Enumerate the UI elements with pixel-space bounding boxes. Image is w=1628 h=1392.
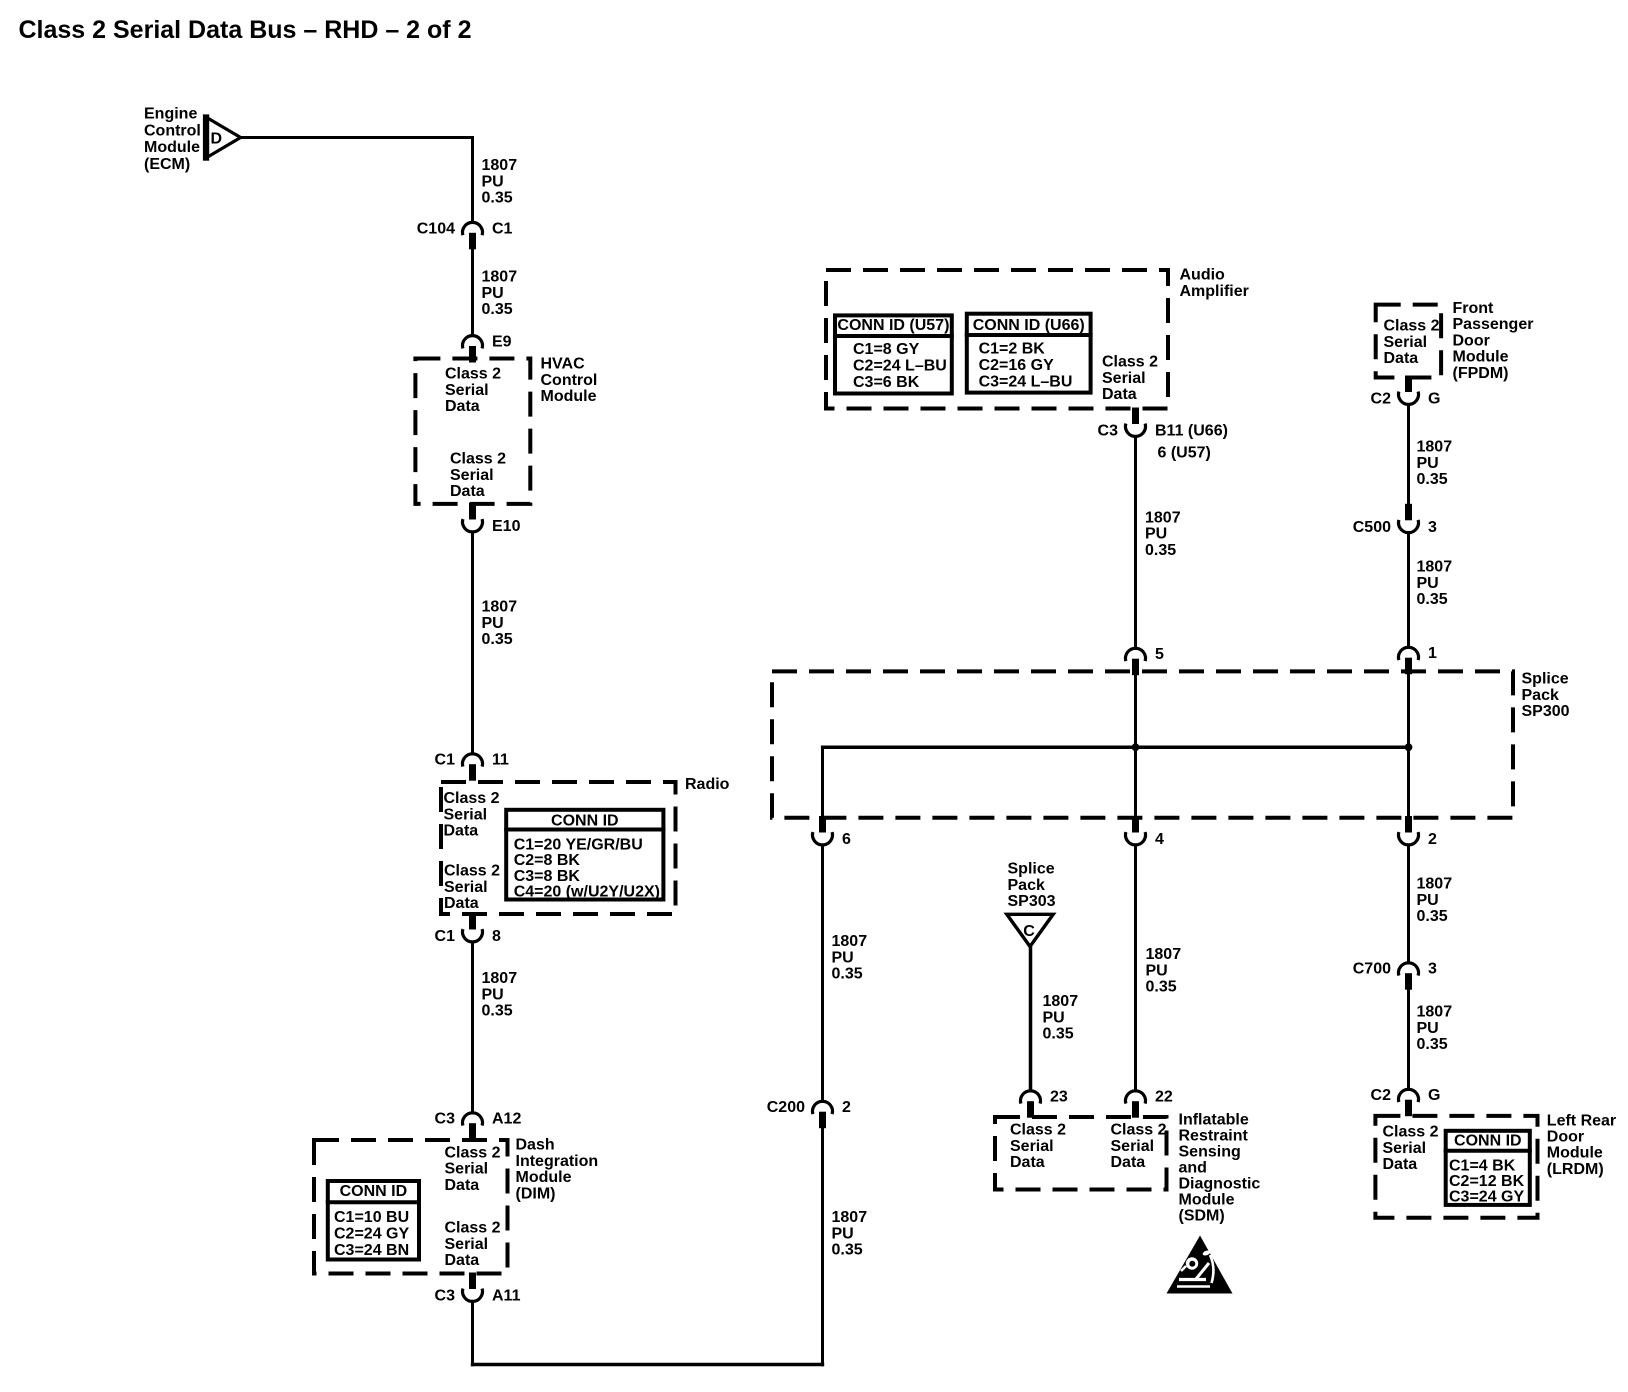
svg-text:PU: PU [1417,455,1439,472]
table CONN ID (U57) [833,315,954,393]
connector C1 pin 11 (Radio) [435,752,509,781]
svg-text:PU: PU [482,285,504,302]
svg-text:E10: E10 [492,518,521,535]
svg-text:Data: Data [1010,1154,1045,1171]
airbag caution symbol [1167,1236,1233,1294]
svg-text:0.35: 0.35 [1417,471,1448,488]
svg-text:PU: PU [1417,892,1439,909]
svg-text:11: 11 [492,752,509,769]
wire SP303 to SDM 23 (1807 PU) [1029,945,1033,1093]
svg-text:C2=24 GY: C2=24 GY [334,1226,409,1243]
svg-text:3: 3 [1428,961,1437,978]
svg-text:Class 2: Class 2 [1010,1122,1066,1139]
svg-text:Data: Data [450,483,485,500]
svg-text:0.35: 0.35 [482,1003,513,1020]
svg-text:Left Rear: Left Rear [1547,1113,1616,1130]
svg-text:G: G [1428,391,1440,408]
svg-text:Pack: Pack [1522,687,1559,704]
connector C3 pin B11 (U66) / 6 (U57) [1098,408,1228,462]
svg-text:Class 2: Class 2 [1383,1124,1439,1141]
connector C200 pin 2 [767,1099,851,1128]
svg-text:(SDM): (SDM) [1179,1208,1225,1225]
svg-text:Module: Module [1547,1145,1603,1162]
wire Radio 8 to DIM A12 (1807 PU) [471,942,474,1115]
svg-text:0.35: 0.35 [482,190,513,207]
svg-text:HVAC: HVAC [541,356,586,373]
wire Audio Amp to SP300 5 (1807 PU) [1134,436,1137,651]
svg-text:Module: Module [144,139,200,156]
svg-text:Class 2 Serial Data Bus – RHD: Class 2 Serial Data Bus – RHD – 2 of 2 [19,16,472,44]
svg-text:(DIM): (DIM) [516,1185,556,1202]
svg-text:1807: 1807 [482,269,518,286]
svg-text:C1: C1 [435,752,456,769]
svg-text:C1: C1 [435,928,456,945]
connector SP300 pin 2 [1399,816,1437,848]
svg-text:PU: PU [1043,1009,1065,1026]
svg-text:1807: 1807 [1417,876,1453,893]
svg-text:G: G [1428,1087,1440,1104]
svg-text:PU: PU [1417,1020,1439,1037]
svg-text:Serial: Serial [1384,334,1428,351]
svg-text:Data: Data [1384,350,1419,367]
svg-text:Passenger: Passenger [1453,316,1534,333]
svg-text:0.35: 0.35 [832,966,863,983]
svg-text:C1=8 GY: C1=8 GY [853,341,920,358]
svg-text:(LRDM): (LRDM) [1547,1161,1604,1178]
svg-text:1807: 1807 [1417,439,1453,456]
svg-text:C4=20 (w/U2Y/U2X): C4=20 (w/U2Y/U2X) [514,884,660,901]
svg-text:(ECM): (ECM) [144,156,190,173]
svg-text:Radio: Radio [685,776,730,793]
svg-text:(FPDM): (FPDM) [1453,365,1509,382]
module Audio Amplifier box [826,270,1168,409]
wire C700 to LRDM G (1807 PU) [1407,989,1410,1092]
svg-text:D: D [211,131,223,148]
svg-text:C3=24 BN: C3=24 BN [334,1242,409,1259]
table CONN ID (Radio) [504,810,665,901]
svg-text:C3=24 GY: C3=24 GY [1449,1189,1524,1206]
module HVAC Control Module box [415,359,530,504]
table CONN ID (LRDM) [1444,1131,1532,1206]
svg-text:Control: Control [144,122,201,139]
svg-text:4: 4 [1155,831,1164,848]
splice pack SP300 box [772,671,1513,817]
svg-text:C2: C2 [1371,1087,1392,1104]
svg-text:Serial: Serial [450,467,494,484]
svg-text:C3: C3 [435,1288,456,1305]
wire C500 to SP300 1 (1807 PU) [1407,531,1410,649]
svg-text:C1=10 BU: C1=10 BU [334,1209,409,1226]
svg-text:C1=20 YE/GR/BU: C1=20 YE/GR/BU [514,837,643,854]
svg-text:Integration: Integration [516,1153,599,1170]
connector C1 pin 8 (Radio) [435,913,501,945]
svg-text:Serial: Serial [1111,1138,1155,1155]
junction dot (bus / pin 4 leg) [1132,743,1140,751]
svg-text:C3=6 BK: C3=6 BK [853,374,920,391]
svg-text:PU: PU [482,986,504,1003]
svg-text:E9: E9 [492,334,512,351]
svg-text:1807: 1807 [1146,946,1182,963]
svg-text:B11 (U66): B11 (U66) [1155,423,1228,440]
svg-text:CONN ID: CONN ID [1454,1133,1522,1150]
connector pin E9 (HVAC) [463,334,512,363]
svg-text:Data: Data [1383,1156,1418,1173]
svg-text:C1=2 BK: C1=2 BK [979,341,1046,358]
svg-text:C3: C3 [1098,423,1119,440]
svg-text:C500: C500 [1353,519,1391,536]
svg-text:Inflatable: Inflatable [1179,1112,1249,1129]
svg-text:Door: Door [1547,1129,1584,1146]
svg-text:Data: Data [1102,386,1137,403]
connector C3 pin A11 (DIM) [435,1273,521,1305]
svg-text:5: 5 [1155,646,1164,663]
off-page connector D (ECM) [203,114,241,160]
svg-text:Serial: Serial [1102,370,1146,387]
svg-text:C2=24 L–BU: C2=24 L–BU [853,357,947,374]
svg-text:Serial: Serial [1010,1138,1054,1155]
svg-text:Sensing: Sensing [1179,1144,1241,1161]
svg-text:A11: A11 [492,1288,521,1305]
svg-text:C3=24 L–BU: C3=24 L–BU [979,374,1073,391]
svg-text:Class 2: Class 2 [450,451,506,468]
svg-text:Data: Data [1111,1154,1146,1171]
svg-text:Module: Module [516,1169,572,1186]
module SDM box [995,1117,1167,1190]
svg-text:0.35: 0.35 [482,631,513,648]
svg-text:Audio: Audio [1180,267,1226,284]
svg-text:SP300: SP300 [1522,703,1570,720]
svg-text:0.35: 0.35 [832,1242,863,1259]
svg-text:1: 1 [1428,645,1437,662]
svg-text:6: 6 [842,831,851,848]
svg-text:Class 2: Class 2 [1384,318,1440,335]
wire SP300 2 to C700 (1807 PU) [1407,846,1410,965]
connector C700 pin 3 [1353,961,1437,990]
wire C104 to HVAC E9 (1807 PU) [471,249,474,338]
svg-text:CONN ID (U66): CONN ID (U66) [973,317,1085,334]
svg-text:1807: 1807 [1417,559,1453,576]
svg-text:Class 2: Class 2 [445,1144,501,1161]
svg-text:C: C [1023,923,1035,940]
svg-text:0.35: 0.35 [1145,542,1176,559]
connector C2 pin G (LRDM) [1371,1087,1441,1116]
connector SP300 pin 5 [1126,646,1165,675]
connector SP300 pin 6 [812,816,851,848]
module Radio box [441,782,676,914]
svg-text:PU: PU [832,1225,854,1242]
table CONN ID (DIM) [326,1181,421,1260]
table CONN ID (U66) [965,314,1093,393]
svg-text:2: 2 [842,1099,851,1116]
svg-text:Door: Door [1453,332,1490,349]
svg-text:2: 2 [1428,831,1437,848]
svg-text:0.35: 0.35 [1417,908,1448,925]
svg-text:Class 2: Class 2 [445,366,501,383]
svg-text:Data: Data [445,398,480,415]
svg-text:Class 2: Class 2 [444,790,500,807]
svg-text:C700: C700 [1353,961,1391,978]
off-page connector C (SP303) [1007,914,1053,946]
wire ECM to C104 (1807 PU) [240,136,475,224]
svg-text:PU: PU [1146,962,1168,979]
svg-text:CONN ID: CONN ID [340,1183,408,1200]
svg-text:PU: PU [1145,526,1167,543]
svg-text:Serial: Serial [1383,1140,1427,1157]
svg-text:1807: 1807 [482,970,518,987]
svg-text:22: 22 [1155,1089,1173,1106]
connector SP300 pin 4 [1126,816,1165,848]
svg-text:Splice: Splice [1008,861,1055,878]
svg-text:C200: C200 [767,1099,805,1116]
connector SP300 pin 1 [1399,645,1437,674]
svg-text:8: 8 [492,928,501,945]
svg-text:C104: C104 [417,220,455,237]
svg-text:1807: 1807 [482,157,518,174]
svg-text:C3=8 BK: C3=8 BK [514,868,581,885]
svg-text:PU: PU [482,173,504,190]
svg-text:23: 23 [1050,1089,1068,1106]
svg-text:Splice: Splice [1522,671,1569,688]
connector pin 23 (SDM) [1021,1089,1068,1118]
svg-text:Module: Module [1453,349,1509,366]
svg-text:1807: 1807 [832,933,868,950]
svg-text:0.35: 0.35 [482,301,513,318]
svg-text:Class 2: Class 2 [1102,354,1158,371]
svg-text:0.35: 0.35 [1417,591,1448,608]
connector pin E10 (HVAC) [463,503,521,535]
svg-text:SP303: SP303 [1008,893,1056,910]
wire SP300 6 to C200 (1807 PU) [821,845,824,1104]
svg-text:Serial: Serial [445,1236,489,1253]
svg-text:Front: Front [1453,300,1495,317]
module Dash Integration Module box [314,1140,508,1274]
svg-text:1807: 1807 [832,1209,868,1226]
module LRDM box [1375,1116,1537,1218]
svg-text:Module: Module [1179,1192,1235,1209]
svg-text:C1=4 BK: C1=4 BK [1449,1158,1516,1175]
connector C2 pin G (FPDM) [1371,376,1441,408]
svg-text:CONN ID: CONN ID [551,813,619,830]
svg-text:Engine: Engine [144,106,197,123]
svg-text:PU: PU [482,615,504,632]
svg-text:Class 2: Class 2 [444,863,500,880]
svg-text:6 (U57): 6 (U57) [1158,445,1211,462]
connector pin 22 (SDM) [1126,1089,1173,1118]
svg-text:Data: Data [445,1177,480,1194]
svg-text:Dash: Dash [516,1137,555,1154]
svg-text:Class 2: Class 2 [445,1220,501,1237]
svg-text:0.35: 0.35 [1146,979,1177,996]
svg-text:1807: 1807 [482,599,518,616]
svg-text:Data: Data [444,895,479,912]
svg-text:3: 3 [1428,519,1437,536]
svg-text:Serial: Serial [445,1161,489,1178]
svg-text:C3: C3 [435,1111,456,1128]
wire SP300 internal bus [821,673,1410,821]
svg-text:Serial: Serial [444,806,488,823]
svg-text:PU: PU [1417,575,1439,592]
connector C3 pin A12 (DIM) [435,1111,522,1140]
svg-text:CONN ID (U57): CONN ID (U57) [837,317,949,334]
svg-text:Control: Control [541,372,598,389]
wire SP300 4 to SDM 22 (1807 PU) [1134,846,1137,1093]
svg-text:1807: 1807 [1417,1004,1453,1021]
svg-text:1807: 1807 [1145,509,1181,526]
svg-text:0.35: 0.35 [1043,1026,1074,1043]
svg-text:1807: 1807 [1043,993,1079,1010]
svg-text:Class 2: Class 2 [1111,1122,1167,1139]
svg-text:C2=12 BK: C2=12 BK [1449,1173,1525,1190]
module FPDM box [1376,305,1441,378]
junction dot (bus / pin 2 leg) [1405,743,1413,751]
svg-text:Pack: Pack [1008,877,1045,894]
svg-text:C2=16 GY: C2=16 GY [979,357,1054,374]
svg-text:C2: C2 [1371,391,1392,408]
svg-text:Module: Module [541,388,597,405]
svg-text:0.35: 0.35 [1417,1036,1448,1053]
svg-text:Serial: Serial [444,879,488,896]
svg-text:Data: Data [444,823,479,840]
svg-text:Serial: Serial [445,382,489,399]
svg-text:Amplifier: Amplifier [1180,283,1249,300]
wire FPDM G to C500 (1807 PU) [1407,406,1410,507]
svg-text:Restraint: Restraint [1179,1128,1249,1145]
connector C500 pin 3 [1353,504,1437,536]
svg-text:Data: Data [445,1252,480,1269]
svg-text:and: and [1179,1160,1207,1177]
svg-text:C1: C1 [492,220,513,237]
connector C104 / C1 [417,220,513,249]
wire DIM A11 to C200 chain (bottom run) [471,1128,824,1367]
svg-text:A12: A12 [492,1111,521,1128]
svg-text:Diagnostic: Diagnostic [1179,1176,1261,1193]
svg-text:PU: PU [832,949,854,966]
svg-text:C2=8 BK: C2=8 BK [514,852,581,869]
wire E10 to Radio 11 (1807 PU) [471,532,474,756]
